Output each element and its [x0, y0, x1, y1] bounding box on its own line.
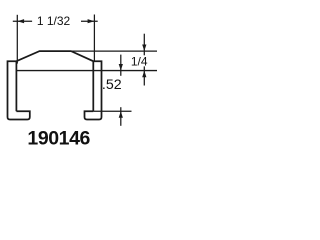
1/4 dim arrow top (down, overshoot below line A)	[143, 34, 145, 56]
extension line A (top surface level)	[71, 50, 157, 52]
svg-text:190146: 190146	[27, 128, 90, 150]
extension line lip top	[93, 110, 131, 112]
svg-text:.52: .52	[102, 77, 122, 93]
arrowhead right	[88, 19, 95, 23]
dimension line right segment with overshoot	[81, 20, 98, 22]
svg-text:1 1/32: 1 1/32	[37, 14, 71, 28]
extension line right (width dim)	[93, 15, 95, 63]
arrowhead left	[17, 19, 24, 23]
.52 dim arrow top (down, overshoot below line B)	[120, 55, 122, 76]
profile outline (channel cross-section)	[8, 51, 102, 119]
.52 dim arrow bottom (up, overshoot above lip line)	[120, 107, 122, 126]
1/4 dim arrow bottom (up, overshoot above line B)	[143, 66, 145, 85]
extension line left (width dim)	[16, 15, 18, 64]
extension line B (inner cavity top)	[16, 70, 157, 72]
dimension line left segment with overshoot	[13, 20, 32, 22]
svg-text:1/4: 1/4	[131, 54, 148, 68]
